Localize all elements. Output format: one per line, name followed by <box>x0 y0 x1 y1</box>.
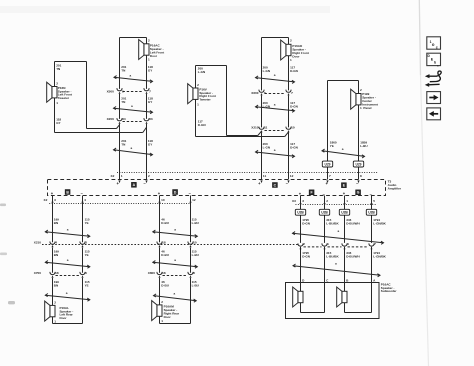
connector U2B (3) <box>339 209 349 215</box>
subwoofer box P16AC <box>286 283 380 319</box>
svg-text:X2: X2 <box>111 174 115 178</box>
svg-text:a: a <box>274 103 276 107</box>
svg-text:U29: U29 <box>324 162 330 166</box>
connector dotted line bottom left <box>49 203 189 205</box>
connector U2B (4) <box>366 209 376 215</box>
speaker P16V Right Front Tweeter <box>193 88 198 99</box>
wire 200 L-GN left column <box>261 38 263 91</box>
svg-text:2: 2 <box>290 38 292 42</box>
svg-text:4: 4 <box>55 240 57 244</box>
splice arrow a (C1-3) <box>114 150 153 155</box>
svg-text:7: 7 <box>291 91 293 95</box>
amp terminal - pin8 <box>357 180 359 183</box>
svg-text:G: G <box>357 191 360 195</box>
icon zoom-in box <box>427 53 441 65</box>
svg-text:1: 1 <box>161 319 163 323</box>
splice arrow a (C1-1) <box>114 77 153 81</box>
svg-text:5: 5 <box>264 91 266 95</box>
channel box D <box>173 190 178 195</box>
svg-text:1795D-GN: 1795D-GN <box>302 251 310 259</box>
wire 315 L-BU/BK sub column <box>324 196 326 210</box>
amp exit arrow X3 wire 1795 <box>299 203 301 206</box>
svg-text:a: a <box>274 73 276 77</box>
svg-text:7: 7 <box>149 89 151 93</box>
scan artifact: faint vertical line right <box>421 75 429 366</box>
connector U2B (1) <box>295 209 305 215</box>
speaker P16AM Right Rear Door <box>157 305 162 316</box>
speaker P16N Left Front Tweeter <box>52 87 57 98</box>
svg-text:X500: X500 <box>107 89 115 93</box>
svg-text:3: 3 <box>54 198 56 202</box>
amp terminal + pin7 <box>326 180 328 183</box>
svg-text:5: 5 <box>373 199 375 203</box>
channel box B <box>65 190 70 195</box>
wire 200 L-GN tweeter branch <box>195 66 197 89</box>
connector X2 dotted line top <box>117 172 378 174</box>
connector X210 lower middle <box>157 242 162 245</box>
scan artifact: left edge smudge 3 <box>8 301 15 304</box>
svg-text:X210: X210 <box>34 240 42 244</box>
svg-text:a: a <box>66 291 68 295</box>
svg-text:a: a <box>342 147 344 151</box>
svg-text:a: a <box>174 228 176 232</box>
svg-text:34: 34 <box>122 117 126 121</box>
svg-text:2: 2 <box>326 199 328 203</box>
wire 200 L-GN top run RF door <box>262 37 289 39</box>
svg-text:a: a <box>174 258 176 262</box>
wire 201 TN left column <box>119 38 121 89</box>
svg-text:1: 1 <box>121 174 123 178</box>
connector dotted line bottom right <box>296 204 378 206</box>
svg-text:2: 2 <box>148 174 150 178</box>
wire 46 D-BU rr column <box>159 196 161 243</box>
svg-text:1: 1 <box>197 103 199 107</box>
amp terminal - pin2 <box>145 180 147 183</box>
wire 1860 YE top run <box>328 80 359 82</box>
svg-text:18: 18 <box>162 271 166 275</box>
svg-text:3: 3 <box>85 240 87 244</box>
wire 1860 YE left column <box>327 81 329 162</box>
svg-text:2: 2 <box>54 300 56 304</box>
wire P16AL pin1 bottom run <box>52 317 54 324</box>
speaker P16AD Right Front Door <box>286 44 291 55</box>
wire sub speaker2 + <box>344 283 346 292</box>
wire 118 GY right column <box>146 55 148 89</box>
splice arrow a (C4-2) <box>45 262 90 266</box>
wire 117 D-GN tweeter branch <box>195 99 197 136</box>
svg-text:2: 2 <box>148 38 150 42</box>
connector X206 <box>117 118 122 121</box>
svg-text:10: 10 <box>193 240 197 244</box>
amp exit arrow pin3 <box>51 202 53 205</box>
svg-text:12: 12 <box>192 198 196 202</box>
wire 1795 D-GN sub column <box>300 196 302 210</box>
wire sub speaker2 - <box>371 283 373 313</box>
speaker P16AL Left Rear Door <box>50 305 55 316</box>
svg-text:X800: X800 <box>148 271 156 275</box>
icon zoom-out box <box>427 37 441 49</box>
svg-text:1: 1 <box>346 199 348 203</box>
wire 115 YE lr column <box>82 196 84 243</box>
splice arrow a (C5-3) <box>154 296 197 301</box>
connector X210 upper <box>259 127 264 130</box>
svg-text:11: 11 <box>264 125 268 129</box>
svg-text:1: 1 <box>148 58 150 62</box>
splice arrow a (C5-1) <box>153 232 198 236</box>
svg-text:12: 12 <box>290 174 294 178</box>
channel box A <box>132 182 137 187</box>
svg-text:7: 7 <box>374 242 376 246</box>
amp exit arrow X3 wire 1794 <box>370 203 372 206</box>
connector X600 <box>259 90 264 93</box>
svg-text:c: c <box>437 63 439 67</box>
svg-text:b: b <box>434 61 436 65</box>
svg-text:10: 10 <box>161 198 165 202</box>
svg-text:c: c <box>436 46 438 50</box>
splice arrow a (C6-2) <box>293 266 380 276</box>
svg-text:X700: X700 <box>34 271 42 275</box>
svg-text:5: 5 <box>122 89 124 93</box>
splice arrow a (C2-3) <box>256 152 295 156</box>
wire 201 TN tweeter branch <box>54 62 56 87</box>
svg-text:8: 8 <box>360 174 362 178</box>
svg-text:F: F <box>311 191 313 195</box>
svg-text:1: 1 <box>290 58 292 62</box>
scan artifact: faint band top <box>0 6 330 13</box>
svg-text:1: 1 <box>56 101 58 105</box>
connector X800 <box>157 272 162 275</box>
svg-text:2: 2 <box>161 300 163 304</box>
icon forward arrow box <box>427 92 441 104</box>
connector U29 right <box>353 161 363 167</box>
svg-text:X206: X206 <box>107 117 115 121</box>
svg-text:a: a <box>131 104 133 108</box>
inline connector row subwoofer <box>298 243 303 246</box>
speaker subwoofer 2 <box>342 291 347 302</box>
amp exit arrow X3 wire 315 <box>323 203 325 206</box>
svg-text:10: 10 <box>291 125 295 129</box>
connector U29 left <box>322 161 332 167</box>
scan artifact: faint vertical line top right <box>419 0 420 75</box>
splice arrow a (C3) <box>322 151 365 157</box>
svg-text:a: a <box>130 73 132 77</box>
svg-text:a: a <box>67 258 69 262</box>
svg-text:a: a <box>174 291 176 295</box>
svg-text:6: 6 <box>85 271 87 275</box>
svg-text:18: 18 <box>162 240 166 244</box>
wire 117 D-GN right column <box>288 56 290 91</box>
wire 199 BN lr column <box>52 196 54 243</box>
wire 346 D-BU/WH sub column <box>344 196 346 210</box>
svg-text:U29: U29 <box>355 162 361 166</box>
audio amplifier T3 dashed box <box>48 180 386 196</box>
svg-text:8: 8 <box>193 271 195 275</box>
splice arrow a (C2-2) <box>256 107 295 111</box>
speaker P16AC Left Front Door <box>144 44 149 55</box>
svg-text:U2B: U2B <box>321 211 328 215</box>
svg-text:o: o <box>432 42 435 47</box>
icon back arrow box <box>427 108 441 120</box>
svg-text:a: a <box>338 229 340 233</box>
wire 1794 L-GN/BK sub column <box>371 196 373 210</box>
svg-text:X2: X2 <box>44 198 48 202</box>
connector U2B (2) <box>319 209 329 215</box>
svg-text:U2B: U2B <box>341 211 348 215</box>
svg-text:X3: X3 <box>292 199 296 203</box>
connector X500 <box>117 88 122 91</box>
wire 201 TN top run LF door <box>120 37 147 39</box>
scan artifact: left edge smudge 1 <box>0 204 6 207</box>
svg-text:1: 1 <box>360 106 362 110</box>
svg-text:U2B: U2B <box>368 211 375 215</box>
svg-text:2: 2 <box>303 242 305 246</box>
amp terminal + pin11 <box>260 180 262 183</box>
svg-text:X210: X210 <box>251 125 259 129</box>
svg-text:3: 3 <box>302 199 304 203</box>
connector X210 row dotted line <box>42 244 298 246</box>
splice arrow a (C6-1) <box>293 233 384 243</box>
svg-text:6: 6 <box>347 242 349 246</box>
connector X700 <box>50 272 55 275</box>
svg-text:a: a <box>67 228 69 232</box>
svg-text:7: 7 <box>329 174 331 178</box>
amp exit arrow pin4 <box>81 202 83 205</box>
amp exit arrow pin12 <box>189 202 191 205</box>
channel box C <box>273 183 278 188</box>
svg-text:1795D-GN: 1795D-GN <box>302 218 310 226</box>
splice arrow a (C1-2) <box>114 108 153 112</box>
splice arrow a (C5-2) <box>153 262 198 266</box>
scan artifact: left edge smudge 2 <box>0 253 7 256</box>
amp exit arrow pin10 <box>158 202 160 205</box>
svg-text:a: a <box>274 148 276 152</box>
speaker subwoofer 1 <box>298 291 303 302</box>
svg-text:4: 4 <box>84 198 86 202</box>
splice arrow a (C4-1) <box>45 232 90 236</box>
svg-text:a: a <box>335 262 337 266</box>
wire P16AM pin1 bottom run <box>159 316 161 323</box>
channel box E <box>342 183 347 188</box>
svg-text:2: 2 <box>56 81 58 85</box>
wire 118 GY tweeter branch <box>54 98 56 133</box>
channel box F <box>309 190 314 195</box>
svg-text:11: 11 <box>263 174 267 178</box>
icon curved return arrow <box>427 71 441 82</box>
amp terminal - pin12 <box>287 180 289 183</box>
connector X210 lower left <box>50 242 55 245</box>
splice arrow a (C4-3) <box>45 295 90 300</box>
channel box G <box>356 190 361 195</box>
svg-text:2: 2 <box>197 83 199 87</box>
svg-text:a: a <box>131 146 133 150</box>
amp terminal + pin1 <box>118 180 120 183</box>
splice arrow a (C2-1) <box>256 78 295 82</box>
svg-text:U2B: U2B <box>297 211 304 215</box>
amp exit arrow X3 wire 346 <box>343 203 345 206</box>
svg-text:33: 33 <box>149 117 153 121</box>
wire 1859 L-BU right column <box>358 105 360 161</box>
svg-text:X600: X600 <box>251 91 259 95</box>
wire 115 L-BU rr column <box>190 196 192 243</box>
wire sub speaker1 + <box>300 283 302 292</box>
svg-text:1: 1 <box>327 242 329 246</box>
speaker P199 Center Instrument Panel <box>356 94 361 105</box>
svg-text:18: 18 <box>55 271 59 275</box>
wire sub speaker1 - <box>324 283 326 313</box>
